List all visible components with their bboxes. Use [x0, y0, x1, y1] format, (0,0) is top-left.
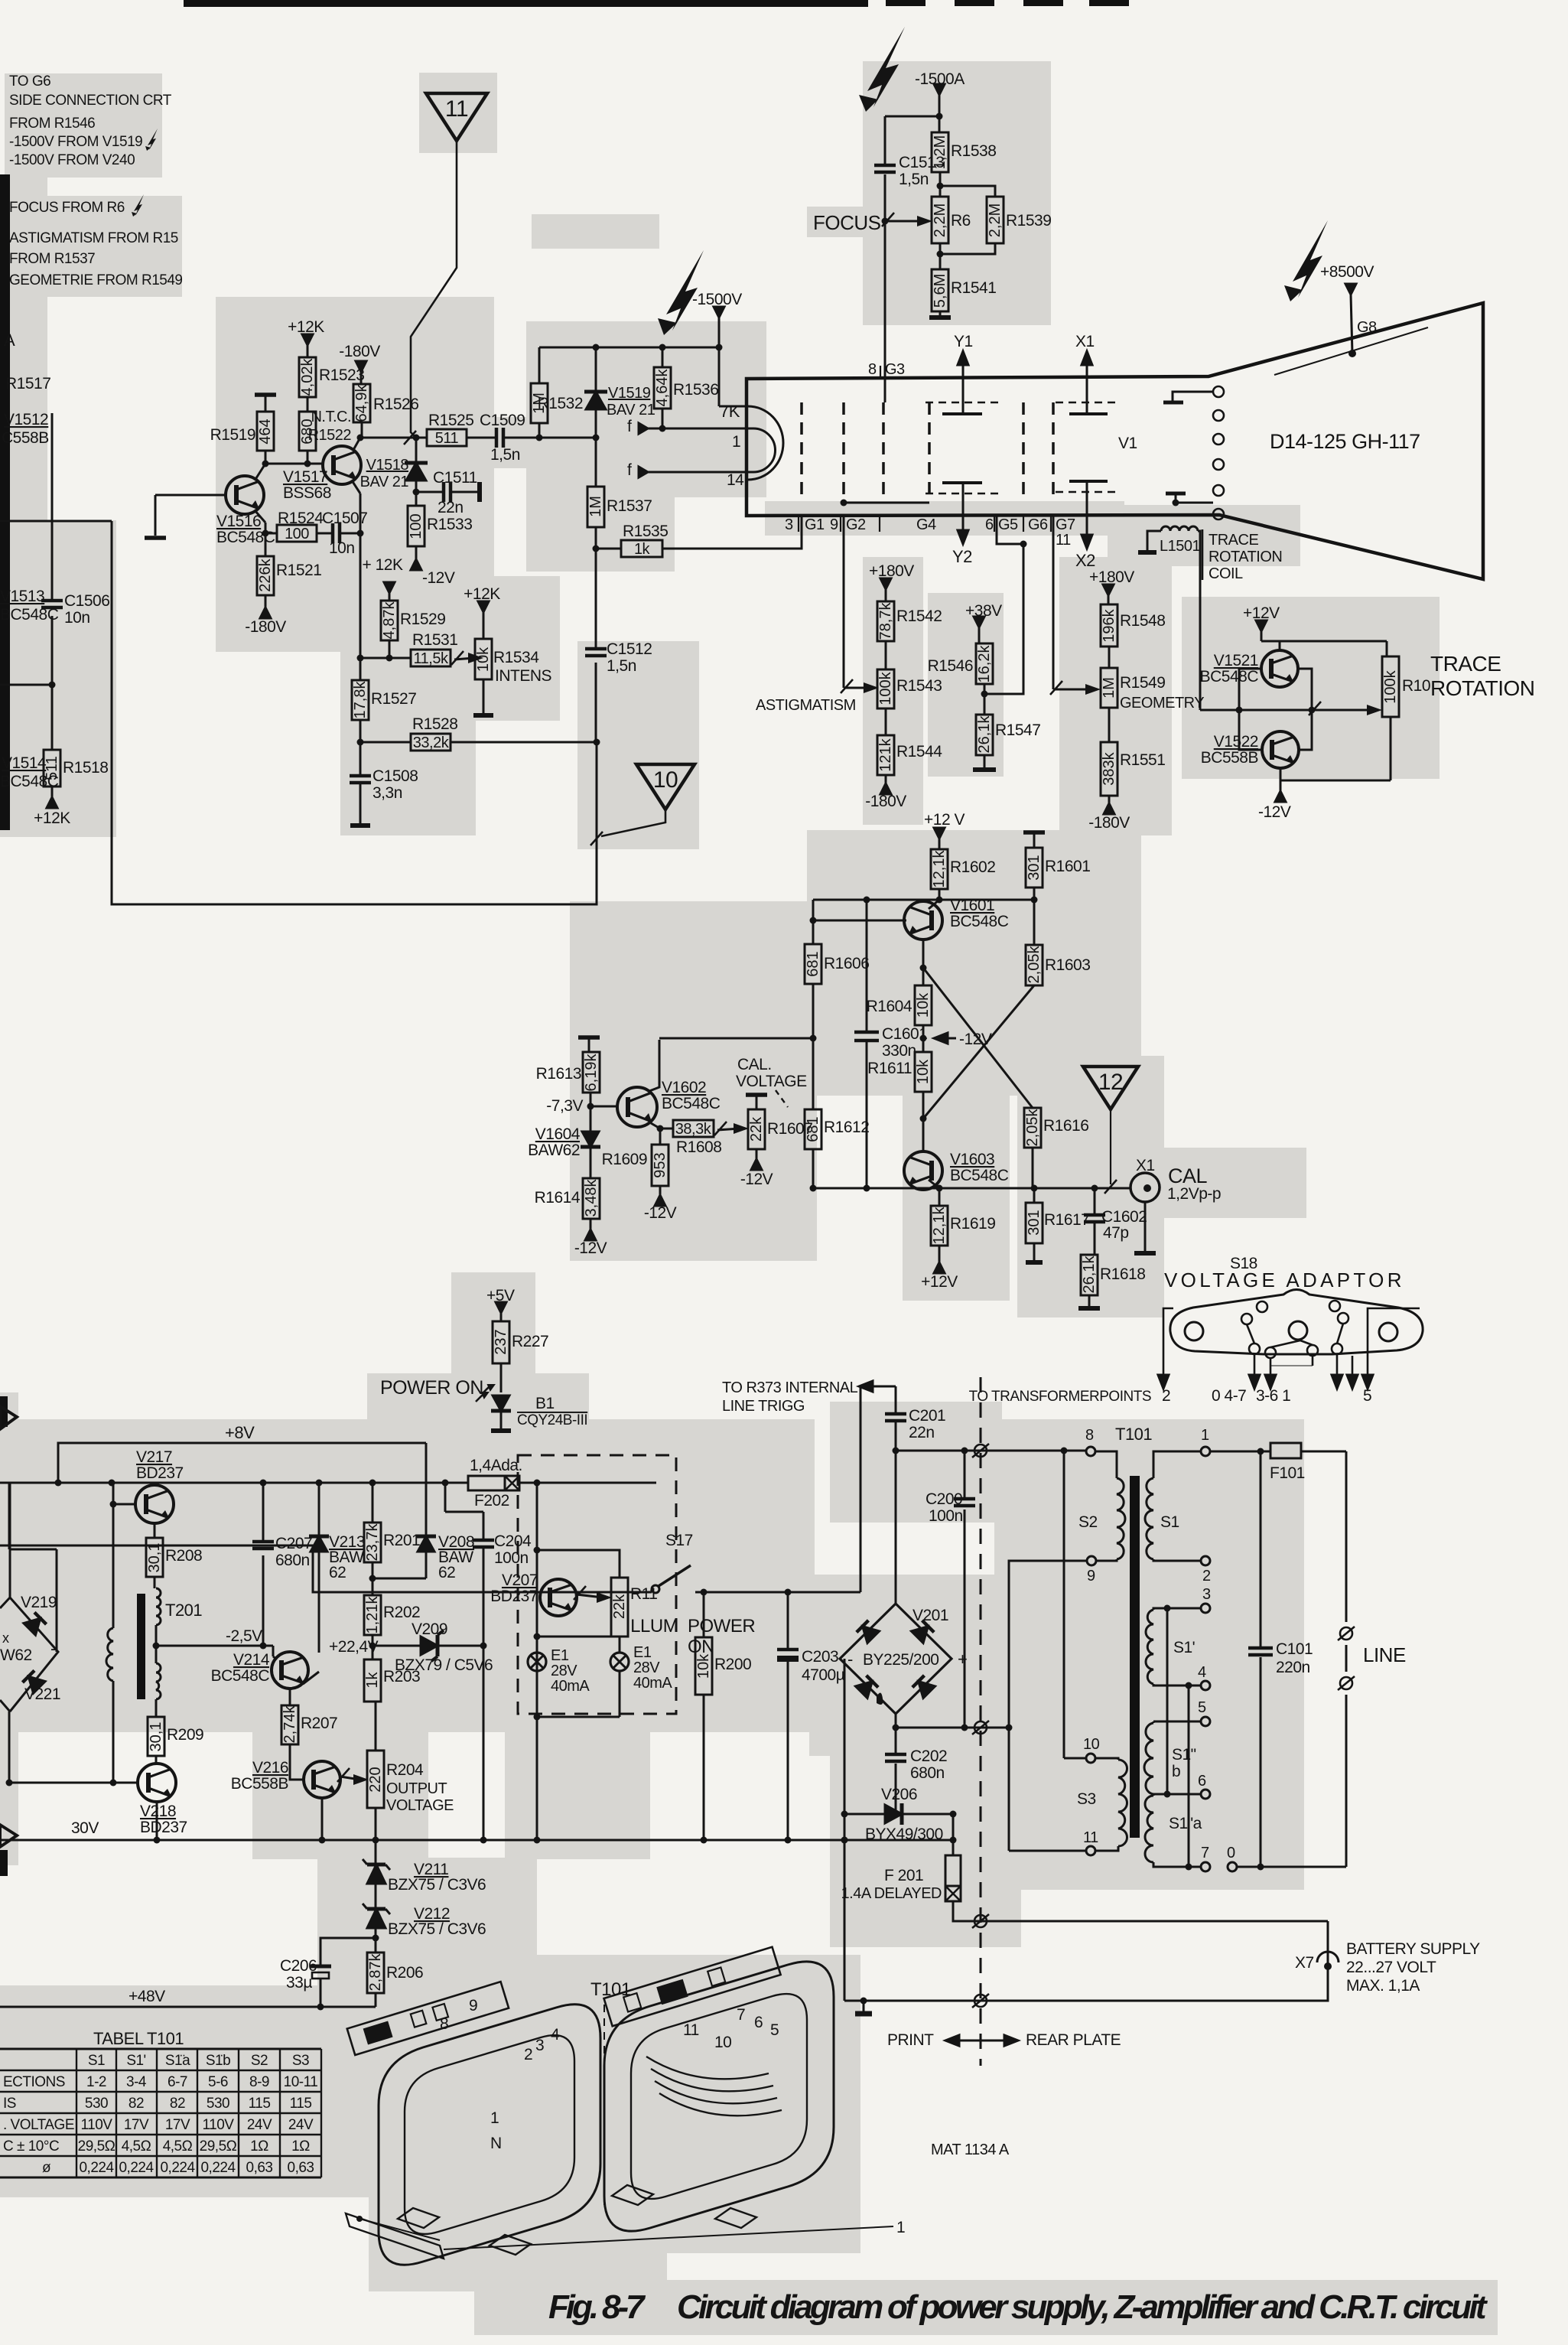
svg-text:464: 464	[257, 419, 274, 444]
svg-text:S1': S1'	[126, 2053, 145, 2069]
svg-text:ø: ø	[42, 2160, 51, 2176]
resistor R1533	[408, 506, 472, 546]
svg-text:BD237: BD237	[490, 1588, 538, 1605]
winding T201 right upper	[156, 1588, 161, 1625]
V211 column from 30V rail	[375, 1840, 377, 1865]
svg-text:2,05k: 2,05k	[1024, 1109, 1041, 1147]
svg-text:4,5Ω: 4,5Ω	[122, 2138, 151, 2154]
svg-text:R1547: R1547	[995, 721, 1040, 739]
resistor R1542	[877, 601, 942, 641]
wire V1513 column	[51, 413, 54, 601]
V216 collector to rail	[321, 1798, 324, 1840]
resistor R1543	[877, 669, 942, 708]
wire -1500A junction	[885, 116, 939, 118]
resistor R1526	[353, 384, 418, 422]
svg-text:FROM R1537: FROM R1537	[9, 251, 95, 267]
bottom rail	[1280, 780, 1391, 782]
wire R1546 bottom node	[984, 684, 986, 715]
svg-text:115: 115	[249, 2096, 271, 2112]
V217 base wire	[113, 1503, 135, 1506]
wire C1508 to ground	[359, 783, 362, 817]
svg-text:10n: 10n	[329, 539, 355, 557]
svg-text:+8500V: +8500V	[1320, 263, 1374, 281]
resistor R1613	[583, 1052, 600, 1093]
svg-text:17V: 17V	[124, 2117, 149, 2133]
resistor R1519	[210, 412, 274, 451]
feedback loop wire (left)	[112, 521, 597, 904]
svg-text:-180V: -180V	[339, 343, 380, 360]
supply terminal -12V R1614	[574, 1229, 607, 1257]
-1500V rail	[539, 347, 719, 349]
svg-text:-180V: -180V	[245, 618, 286, 636]
pin 0 wire to line loop	[1237, 1866, 1346, 1868]
supply terminal +12K (R1534)	[464, 585, 500, 612]
svg-text:+12V: +12V	[921, 1273, 958, 1291]
svg-text:R209: R209	[167, 1726, 203, 1744]
svg-text:2,74k: 2,74k	[281, 1705, 298, 1744]
winding S1p	[1146, 1610, 1153, 1684]
svg-text:CQY24B-III: CQY24B-III	[517, 1412, 587, 1428]
base tie wire	[1239, 669, 1262, 750]
svg-text:R1528: R1528	[412, 715, 457, 733]
svg-text:R1602: R1602	[950, 858, 995, 876]
winding L1501	[1161, 526, 1198, 531]
V214 emitter wire	[303, 1672, 319, 1684]
svg-text:1: 1	[896, 2219, 905, 2236]
V217 collector to rail	[154, 1483, 156, 1485]
connector mark rear mark4	[972, 1994, 989, 2008]
resistor R1606	[805, 944, 869, 984]
svg-text:R1612: R1612	[824, 1119, 869, 1136]
svg-text:R1522: R1522	[308, 427, 352, 444]
svg-text:62: 62	[438, 1564, 455, 1581]
C1602 column	[1094, 1188, 1096, 1215]
resistor R1608	[673, 1120, 714, 1138]
svg-text:V1603: V1603	[950, 1151, 994, 1168]
svg-text:1,2Vp-p: 1,2Vp-p	[1167, 1185, 1221, 1203]
right transformer body	[604, 1962, 834, 2231]
wire +12K to R1534	[483, 612, 485, 639]
bottom rail CAL	[813, 1187, 1091, 1190]
resistor R1539	[987, 197, 1051, 243]
pin 9	[1087, 1556, 1096, 1565]
svg-text:S1: S1	[88, 2053, 105, 2069]
svg-text:C204: C204	[494, 1532, 532, 1550]
svg-text:C1602: C1602	[1101, 1208, 1147, 1226]
G7 wire to geometry pot	[1052, 516, 1055, 689]
svg-text:40mA: 40mA	[551, 1678, 590, 1695]
svg-text:T101: T101	[1115, 1425, 1152, 1444]
resistor R1537	[587, 487, 652, 527]
svg-text:7K: 7K	[720, 402, 740, 421]
svg-text:9: 9	[830, 516, 838, 533]
svg-text:R1521: R1521	[276, 562, 321, 579]
svg-text:+5V: +5V	[486, 1287, 515, 1304]
arrow 2	[1163, 1308, 1173, 1377]
svg-text:R6: R6	[951, 212, 971, 230]
resistor R1541	[932, 269, 996, 311]
svg-text:BSS68: BSS68	[283, 484, 331, 502]
S3 winding	[1095, 1758, 1118, 1760]
svg-text:121k: 121k	[877, 738, 894, 771]
capacitor C101	[1248, 1648, 1273, 1655]
supply terminal -180V (R1521)	[245, 607, 286, 636]
svg-text:R11: R11	[630, 1585, 657, 1603]
svg-text:IS: IS	[3, 2096, 16, 2112]
R1536 column	[662, 347, 664, 367]
wire node to CRT pin6 wire	[984, 544, 1023, 694]
transistor V214	[211, 1651, 308, 1689]
V218 to 30V rail	[156, 1802, 158, 1840]
svg-text:680n: 680n	[910, 1764, 945, 1782]
resistor R1532	[531, 383, 583, 423]
svg-text:V1521: V1521	[1214, 652, 1258, 669]
HV flash symbol flash -1500A	[867, 27, 905, 107]
arrow 1	[1352, 1356, 1354, 1375]
svg-text:29,5Ω: 29,5Ω	[78, 2138, 115, 2154]
svg-text:X1: X1	[1075, 333, 1095, 350]
S1''b winding	[1153, 1721, 1155, 1723]
CRT pin 6 wire	[997, 516, 1023, 544]
svg-text:S1̈a: S1̈a	[165, 2053, 190, 2069]
svg-text:1.4A DELAYED: 1.4A DELAYED	[841, 1885, 942, 1902]
emitter rail	[813, 899, 1034, 901]
svg-text:A: A	[4, 331, 15, 350]
svg-text:30,1: 30,1	[146, 1543, 163, 1573]
wire R1523 to R1522	[307, 397, 309, 412]
emitter tie wire	[1298, 669, 1312, 750]
wire R1529 bottom	[389, 640, 391, 658]
svg-text:22n: 22n	[438, 499, 464, 516]
resistor R1544	[877, 735, 942, 775]
base wire V1601	[813, 920, 906, 922]
svg-text:29,5Ω: 29,5Ω	[200, 2138, 237, 2154]
svg-text:78,7k: 78,7k	[877, 602, 894, 640]
resistor R203	[364, 1659, 420, 1702]
svg-text:110V: 110V	[203, 2117, 235, 2133]
capacitor C201	[885, 1407, 945, 1441]
V1516 emitter wire	[255, 510, 265, 523]
svg-text:R1611: R1611	[867, 1060, 912, 1077]
svg-text:R1543: R1543	[896, 677, 942, 695]
supply terminal -180V (R1544)	[865, 783, 906, 810]
svg-text:C101: C101	[1276, 1640, 1313, 1658]
svg-text:100k: 100k	[1382, 669, 1399, 703]
svg-text:1,5n: 1,5n	[607, 657, 636, 675]
svg-text:G3: G3	[885, 361, 905, 378]
svg-text:R1546: R1546	[928, 657, 973, 675]
supply terminal +180V (R1548)	[1089, 568, 1134, 595]
small mark below bridge	[877, 1692, 883, 1705]
svg-text:R1607: R1607	[767, 1120, 812, 1138]
V1602 collector wire	[649, 1040, 659, 1091]
svg-text:BC548C: BC548C	[950, 913, 1009, 930]
resistor R1523	[299, 357, 364, 397]
svg-text:TABEL T101: TABEL T101	[93, 2029, 184, 2048]
wire left edge y681	[0, 520, 112, 523]
svg-text:V216: V216	[252, 1759, 288, 1777]
svg-text:R1518: R1518	[63, 759, 108, 777]
svg-text:11: 11	[1083, 1829, 1098, 1846]
V1601 base stub	[922, 940, 925, 968]
V1517 collector wire	[353, 438, 360, 450]
svg-text:0,224: 0,224	[119, 2160, 154, 2176]
svg-text:12: 12	[1098, 1070, 1123, 1095]
svg-text:301: 301	[1026, 1210, 1043, 1235]
svg-text:S3: S3	[292, 2053, 309, 2069]
resistor R204	[367, 1751, 384, 1808]
svg-text:R1619: R1619	[950, 1215, 995, 1233]
bridge to rail junction	[8, 1484, 11, 1549]
svg-text:28V: 28V	[633, 1659, 660, 1676]
capacitor C204	[473, 1532, 532, 1567]
svg-text:BC548C: BC548C	[0, 773, 59, 790]
svg-text:R1524: R1524	[278, 510, 324, 527]
scan shading patches	[5, 73, 162, 178]
svg-text:-180V: -180V	[1088, 814, 1130, 832]
svg-text:C1508: C1508	[372, 767, 418, 785]
svg-text:TRACE: TRACE	[1430, 652, 1501, 676]
wire y1896 to transformer pin 8	[896, 1450, 1086, 1452]
svg-text:V1516: V1516	[216, 513, 261, 530]
svg-text:330n: 330n	[882, 1042, 916, 1060]
svg-text:R1551: R1551	[1120, 751, 1165, 769]
svg-text:530: 530	[207, 2096, 229, 2112]
resistor R1601	[1026, 848, 1090, 888]
right top terminal strip	[604, 1947, 781, 2027]
resistor R1527	[352, 680, 416, 720]
svg-text:S1"a: S1"a	[1169, 1815, 1202, 1832]
svg-text:V201: V201	[912, 1607, 948, 1624]
svg-text:+12V: +12V	[1243, 604, 1280, 622]
wiper arrow R10 wiper	[1309, 702, 1382, 715]
svg-text:ASTIGMATISM FROM R15: ASTIGMATISM FROM R15	[9, 230, 178, 246]
svg-text:C206: C206	[280, 1957, 317, 1975]
diode V208	[416, 1536, 436, 1552]
svg-text:L1501: L1501	[1160, 538, 1200, 555]
svg-text:Circuit diagram of power suppl: Circuit diagram of power supply, Z-ampli…	[677, 2288, 1488, 2326]
svg-text:0,63: 0,63	[246, 2160, 273, 2176]
capacitor C207 column	[262, 1483, 265, 1542]
Y2 deflection plate	[942, 481, 982, 484]
winding S3	[1118, 1760, 1127, 1846]
resistor R1609	[652, 1145, 669, 1186]
dashed enclosure (front panel assy)	[518, 1455, 676, 1714]
wire R1528 right to C1512 node	[451, 741, 597, 744]
svg-text:0,63: 0,63	[288, 2160, 314, 2176]
supply terminal -180V (R1526)	[339, 343, 380, 372]
left winding top wire	[112, 1483, 115, 1628]
svg-text:E1: E1	[551, 1647, 569, 1664]
svg-text:11,5k: 11,5k	[414, 650, 449, 667]
svg-text:C1511: C1511	[433, 469, 477, 487]
svg-text:COIL: COIL	[1209, 565, 1243, 582]
svg-text:R1519: R1519	[210, 426, 255, 444]
internal shield connection top	[1173, 392, 1213, 401]
svg-text:0,224: 0,224	[79, 2160, 114, 2176]
svg-text:R1608: R1608	[676, 1138, 721, 1156]
zener V209 BZX79/C5V6	[372, 1645, 420, 1647]
svg-text:BC548C: BC548C	[1200, 668, 1259, 686]
capacitor C101 column	[1260, 1451, 1262, 1648]
svg-text:BZX75 / C3V6: BZX75 / C3V6	[388, 1920, 486, 1938]
wire y1357 V1602 collector rail	[659, 1037, 813, 1040]
svg-text:ROTATION: ROTATION	[1430, 676, 1535, 700]
arrow 5	[1368, 1308, 1420, 1377]
resistor R227	[493, 1321, 548, 1363]
resistor R209	[148, 1717, 203, 1756]
svg-text:G8: G8	[1357, 319, 1377, 336]
base rail V1517	[265, 451, 267, 464]
svg-text:1: 1	[490, 2109, 499, 2127]
wire C1509 node to V1519 column	[539, 437, 596, 439]
svg-text:N.T.C.: N.T.C.	[311, 409, 351, 425]
transistor V218	[138, 1764, 187, 1836]
left winding bottom wire	[113, 1681, 138, 1783]
pin 4 and S1' bottom	[1153, 1684, 1201, 1685]
svg-text:BC558B: BC558B	[231, 1775, 288, 1793]
pointer line to 1	[444, 2226, 893, 2249]
resistor R201	[364, 1523, 420, 1562]
bridge left vertical	[844, 1659, 846, 2001]
svg-text:SIDE CONNECTION CRT: SIDE CONNECTION CRT	[9, 93, 172, 109]
wire R207 to V216 base	[290, 1744, 304, 1780]
svg-text:22n: 22n	[909, 1424, 935, 1441]
wire y2258	[896, 1727, 1009, 1729]
svg-text:V207: V207	[502, 1571, 538, 1589]
svg-text:R1542: R1542	[896, 607, 942, 625]
plug internal links	[1247, 1324, 1254, 1343]
svg-text:R1529: R1529	[400, 611, 445, 628]
table T101	[0, 2049, 321, 2177]
resistor R1538	[932, 132, 996, 172]
svg-text:+12K: +12K	[464, 585, 500, 603]
fuse F201	[952, 1814, 955, 1855]
wire R1524 left	[265, 533, 277, 535]
V1603 collector stub	[929, 1180, 939, 1188]
svg-text:FROM R1546: FROM R1546	[9, 116, 95, 132]
svg-text:V1601: V1601	[950, 897, 994, 914]
emitter junction rail	[359, 658, 362, 680]
svg-text:F 201: F 201	[884, 1867, 923, 1884]
resistor R1547	[976, 715, 1040, 755]
wire rail to R1532	[538, 347, 541, 383]
svg-text:5: 5	[1198, 1699, 1206, 1716]
svg-text:226k: 226k	[257, 558, 274, 591]
V218 base wire	[113, 1782, 138, 1784]
svg-text:R1601: R1601	[1045, 858, 1090, 875]
svg-text:6: 6	[985, 516, 994, 533]
svg-text:BZX75 / C3V6: BZX75 / C3V6	[388, 1876, 486, 1894]
HV flash symbol flash +8500V	[1293, 220, 1328, 298]
svg-text:-12V: -12V	[959, 1031, 992, 1048]
capacitor C204 column	[444, 1483, 447, 1512]
svg-text:47p: 47p	[1103, 1224, 1129, 1242]
resistor R1602	[931, 849, 995, 889]
svg-text:-12V: -12V	[422, 569, 455, 587]
svg-text:G7: G7	[1056, 516, 1075, 533]
svg-text:62: 62	[329, 1564, 346, 1581]
svg-text:2: 2	[524, 2046, 532, 2063]
svg-text:VOLTAGE: VOLTAGE	[736, 1073, 807, 1090]
svg-text:F101: F101	[1270, 1464, 1305, 1482]
svg-text:C558B: C558B	[2, 429, 49, 447]
wiper arrow R1531 to R1534	[451, 651, 483, 665]
svg-text:82: 82	[128, 2096, 144, 2112]
transistor V1521	[1200, 650, 1298, 687]
svg-text:BC548C: BC548C	[211, 1667, 270, 1685]
svg-text:R207: R207	[301, 1715, 337, 1732]
T201 core	[137, 1594, 145, 1699]
connector mark mains mark1	[972, 1444, 989, 1457]
G2 wire down to astigmatism pot	[843, 516, 845, 688]
svg-text:8: 8	[440, 2015, 448, 2033]
svg-text:G5: G5	[998, 516, 1018, 533]
S1 winding	[1153, 1451, 1201, 1478]
R1604 column	[922, 968, 925, 985]
left transformer body	[379, 2005, 600, 2265]
wire R1527 to R1528 node	[359, 720, 362, 776]
rail after switch	[695, 1591, 860, 1594]
rail from left edge to switch	[0, 1545, 652, 1592]
svg-text:W62: W62	[0, 1646, 32, 1664]
svg-text:R1533: R1533	[427, 516, 472, 533]
svg-text:BAV 21: BAV 21	[607, 402, 656, 419]
bridge bottom link wire	[8, 1712, 11, 1783]
svg-text:+12K: +12K	[288, 318, 324, 336]
svg-text:1k: 1k	[364, 1671, 381, 1688]
svg-text:C203: C203	[802, 1648, 838, 1666]
capacitor C1601	[854, 1032, 879, 1041]
output wire to X1	[1091, 1187, 1131, 1190]
svg-text:R1606: R1606	[824, 955, 869, 972]
svg-text:ROTATION: ROTATION	[1209, 549, 1282, 565]
dashed pointer CAL VOLTAGE	[776, 1090, 788, 1107]
supply terminal -1500V	[692, 291, 742, 318]
svg-text:28V: 28V	[551, 1663, 577, 1679]
svg-text:C1506: C1506	[64, 592, 109, 610]
svg-text:1M: 1M	[1101, 677, 1117, 699]
resistor R1528	[411, 715, 457, 751]
svg-text:BC548C: BC548C	[0, 606, 59, 624]
svg-text:S2: S2	[1078, 1513, 1098, 1531]
svg-text:C207: C207	[275, 1535, 312, 1552]
svg-text:22...27 VOLT: 22...27 VOLT	[1346, 1959, 1436, 1976]
supply terminal -12V R1607	[740, 1159, 773, 1188]
svg-text:1,5n: 1,5n	[899, 171, 929, 188]
svg-text:2,2M: 2,2M	[987, 204, 1004, 237]
svg-text:S17: S17	[665, 1532, 693, 1549]
diode V206	[885, 1803, 902, 1825]
wire R1518 to +12K	[51, 787, 54, 797]
svg-text:30V: 30V	[71, 1819, 99, 1837]
S1' winding	[1153, 1608, 1167, 1610]
svg-text:V217: V217	[136, 1448, 172, 1466]
svg-text:b: b	[1172, 1763, 1180, 1780]
svg-text:S1̈b: S1̈b	[206, 2053, 230, 2069]
svg-text:S1: S1	[1160, 1513, 1179, 1531]
svg-text:1,5n: 1,5n	[490, 446, 520, 464]
svg-text:8: 8	[868, 361, 877, 378]
resistor R6	[932, 197, 971, 243]
svg-text:1Ω: 1Ω	[250, 2138, 268, 2154]
cross wire A (V1601 base to R1616)	[923, 968, 1033, 1108]
svg-text:-12V: -12V	[1258, 803, 1291, 821]
svg-text:R1616: R1616	[1043, 1117, 1088, 1135]
arrow 4-7	[1270, 1358, 1272, 1375]
svg-text:Y2: Y2	[952, 547, 972, 566]
svg-text:V1604: V1604	[535, 1125, 581, 1143]
